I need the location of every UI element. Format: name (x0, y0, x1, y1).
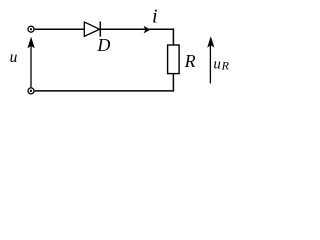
svg-text:i: i (152, 6, 158, 28)
svg-text:D: D (96, 35, 110, 55)
svg-text:R: R (184, 51, 196, 71)
svg-text:u: u (213, 57, 221, 73)
svg-text:R: R (221, 59, 230, 73)
svg-text:u: u (10, 49, 18, 66)
